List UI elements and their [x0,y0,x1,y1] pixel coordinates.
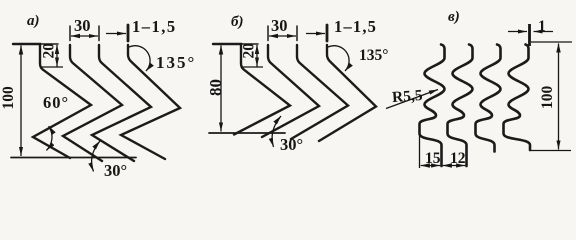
svg-text:135°: 135° [359,47,388,64]
figure a ext bar line 2 [69,26,71,41]
svg-text:1: 1 [538,18,546,35]
figure a dim 30 line [71,35,98,37]
figure b profile line 1 [213,44,290,135]
figure a arc 135 [129,46,150,71]
figure a profile line 1 [13,44,91,158]
figure b dim 20 top ext [241,43,258,45]
figure a leader 1-1,5 [106,33,126,35]
figure c wavy line 3 [476,45,501,152]
svg-text:100: 100 [0,86,17,110]
figure c dim 1 right arrow [534,31,554,33]
figure c dim 12 line [443,165,466,167]
svg-text:30: 30 [271,16,288,35]
figure c wavy line 2 [448,45,473,167]
svg-text:80: 80 [206,79,225,96]
figure a profile line 3 [92,45,151,161]
figure a dim 20 bottom tick [40,66,63,68]
figure c dim 15-12 bar1 [419,134,421,168]
figure b base line [209,132,285,134]
figure c wavy line 1 [420,45,445,167]
figure a arc 30 [92,141,100,172]
svg-text:12: 12 [450,150,466,167]
svg-text:30°: 30° [280,135,303,154]
svg-text:60°: 60° [43,93,69,112]
figure b leader 1-1,5 [306,33,325,35]
svg-text:30°: 30° [104,161,127,180]
figure c leader R5,5 [386,90,438,109]
figure c dim 100 top ext [531,41,572,43]
figure a profile line 2 [63,45,122,161]
figure a profile line 4 [121,45,180,159]
figure a ext bar line 4 thick [127,25,130,41]
figure b ext bar line 3 [296,26,298,41]
figure b ext bar line 4 thick [326,25,329,41]
svg-text:1–1,5: 1–1,5 [132,17,177,36]
figure a dim 20 top ext [40,43,58,45]
figure c dim 15 line [421,165,441,167]
figure c wavy line 4 [504,45,531,151]
figure a base line [11,157,136,159]
svg-text:20: 20 [41,43,58,59]
figure b dim 30 line [269,35,296,37]
figure b dim 20 line [256,45,258,67]
figure b dim 80 line [220,46,222,132]
svg-text:15: 15 [425,150,441,167]
figure c dim 100 bottom ext [530,150,571,152]
figure a arc 60 [46,126,52,150]
figure a ext bar line 3 [98,26,100,41]
svg-text:30: 30 [74,16,91,35]
figure b arc 135 [328,46,349,71]
svg-text:R5,5: R5,5 [391,87,423,106]
svg-text:а): а) [27,13,40,29]
svg-text:1–1,5: 1–1,5 [334,17,377,36]
svg-text:б): б) [231,14,243,30]
svg-text:в): в) [448,9,460,25]
figure c dim 1 bar [528,24,531,46]
svg-text:20: 20 [241,43,258,59]
svg-text:135°: 135° [156,53,196,72]
figure a dim 100 line [20,46,22,157]
figure b ext bar line 2 [267,26,269,41]
figure b profile line 3 [291,45,348,139]
figure c dim 100 line [558,44,560,150]
figure a dim 20 line [56,45,58,67]
figure b dim 20 bottom tick [241,66,263,68]
figure c dim 1 left arrow [508,31,527,33]
figure b arc 30 [272,116,281,147]
figure b profile line 2 [262,45,319,137]
svg-text:100: 100 [539,86,556,110]
figure b profile line 4 [319,45,376,141]
